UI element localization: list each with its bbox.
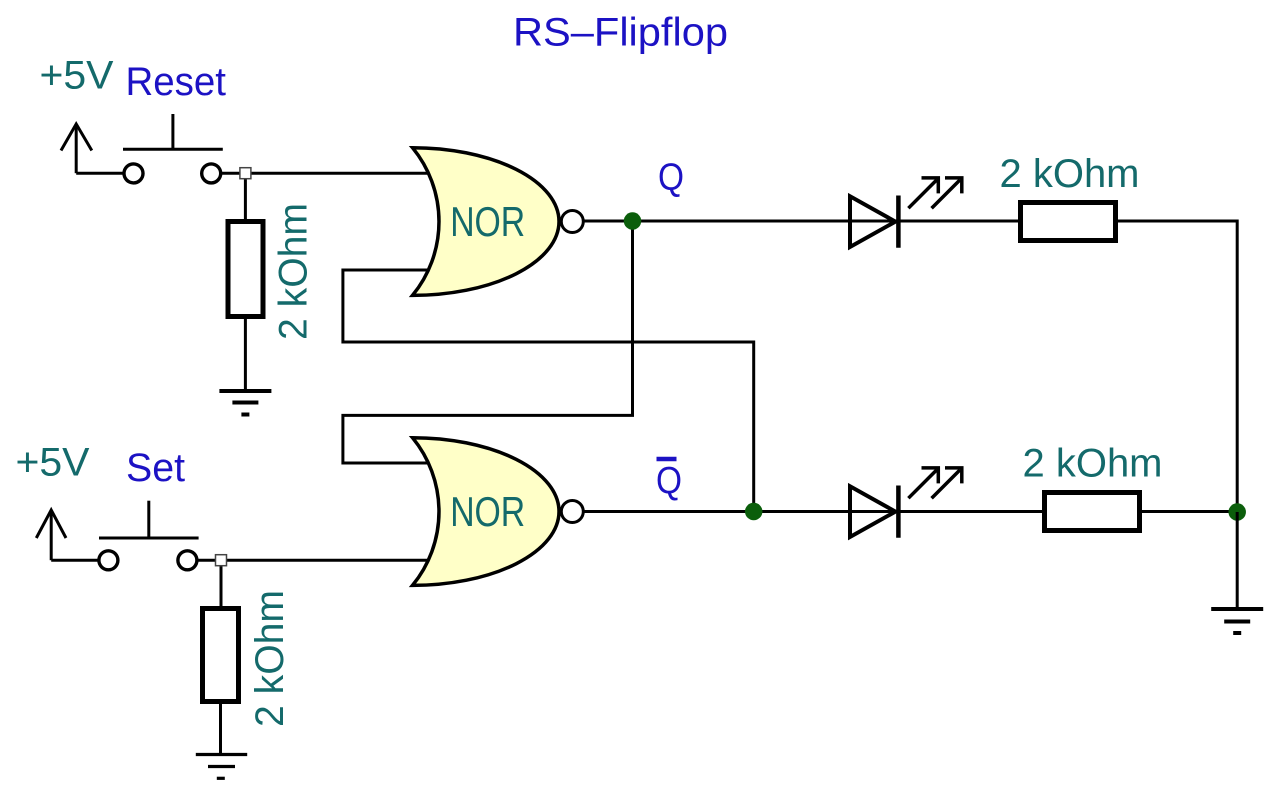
NOR gate U1 <box>413 148 560 296</box>
svg-text:2 kOhm: 2 kOhm <box>248 590 292 727</box>
ground symbol (below R3) <box>196 755 247 779</box>
svg-text:Set: Set <box>126 446 185 490</box>
junction node Q (green dot) <box>624 212 642 230</box>
node square (Set net junction) <box>216 555 227 566</box>
wire NOR2 output to R4 (through LED D2) <box>584 510 1045 513</box>
LED D2 light arrows <box>908 468 961 498</box>
resistor R2 2 kOhm (horizontal, top) <box>1021 203 1116 241</box>
svg-text:2 kOhm: 2 kOhm <box>1023 442 1163 486</box>
pushbutton S1 Reset <box>123 114 223 183</box>
wire R1 to ground <box>244 319 247 391</box>
node square (Reset net junction) <box>240 168 251 179</box>
svg-text:NOR: NOR <box>450 488 525 535</box>
wire node down to R1 <box>244 173 247 220</box>
junction node right rail (green dot) <box>1228 503 1246 521</box>
ground symbol (below R1) <box>219 391 271 415</box>
svg-text:RS–Flipflop: RS–Flipflop <box>513 11 728 55</box>
svg-text:+5V: +5V <box>40 54 114 98</box>
LED D1 <box>850 196 898 248</box>
svg-text:2 kOhm: 2 kOhm <box>1000 152 1140 196</box>
svg-text:Q: Q <box>656 460 682 502</box>
wire node down to R3 <box>220 560 223 607</box>
wire Set node to NOR2 input B <box>198 559 450 562</box>
wire cross-coupling A: Q to NOR2 input <box>343 221 633 463</box>
LED D1 light arrows <box>908 178 961 208</box>
resistor R3 2 kOhm (vertical, Set pulldown) <box>203 609 239 702</box>
svg-text:Q: Q <box>658 157 684 199</box>
svg-text:NOR: NOR <box>450 198 525 245</box>
LED D2 <box>850 486 898 538</box>
svg-text:2 kOhm: 2 kOhm <box>272 203 316 340</box>
junction node Qbar (green dot) <box>745 503 763 521</box>
svg-text:+5V: +5V <box>16 441 90 485</box>
NOR1 output bubble <box>561 211 583 233</box>
power +5V symbol (Reset side) <box>61 124 125 173</box>
wire NOR1 output to R2 (through LED D1) <box>584 220 1021 223</box>
resistor R4 2 kOhm (horizontal, bottom) <box>1045 493 1140 531</box>
ground symbol (bottom right) <box>1211 609 1263 633</box>
NOR gate U2 <box>413 438 560 586</box>
wire Reset node to NOR1 input A <box>222 172 451 175</box>
NOR2 output bubble <box>561 501 583 523</box>
svg-text:Reset: Reset <box>126 60 227 104</box>
wire R4 to right rail node <box>1140 510 1238 513</box>
power +5V symbol (Set side) <box>36 510 100 560</box>
wire rail node to ground <box>1236 512 1239 609</box>
wire cross-coupling B: Qbar to NOR1 input <box>343 270 754 512</box>
wire R3 to ground <box>219 704 222 754</box>
resistor R1 2 kOhm (vertical, Reset pulldown) <box>228 222 263 317</box>
pushbutton S2 Set <box>99 501 199 570</box>
wire R2 to right rail, down to Qbar rail node <box>1118 221 1237 513</box>
label Qbar overbar <box>657 457 677 462</box>
